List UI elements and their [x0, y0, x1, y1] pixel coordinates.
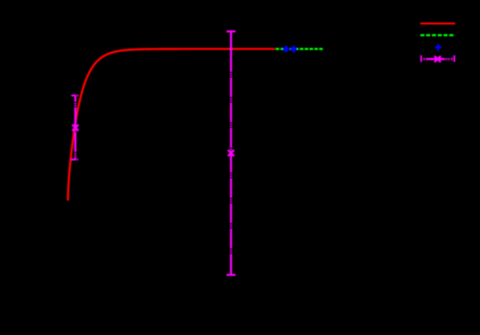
legend sample: blue plus marker [435, 44, 442, 51]
legend sample: magenta errorbar line [420, 55, 455, 62]
red fitted curve [68, 49, 275, 201]
magenta error bar 1 top cap [71, 95, 78, 97]
blue data point 1 [283, 46, 289, 52]
magenta error bar 2 X marker [228, 150, 234, 156]
magenta error bar 2 (large, center) line [230, 31, 232, 275]
magenta error bar 2 bottom cap [227, 274, 236, 276]
magenta error bar 1 (small, left) line [74, 96, 76, 160]
green dashed extrapolation line [276, 48, 324, 50]
legend sample: green dashed line [420, 34, 455, 36]
magenta error bar 1 bottom cap [71, 159, 78, 161]
magenta error bar 1 X marker [72, 125, 78, 131]
magenta error bar 2 top cap [227, 30, 236, 32]
legend sample: magenta X marker [435, 56, 441, 62]
legend sample: red solid line [420, 22, 455, 24]
blue data point 2 [291, 46, 297, 52]
